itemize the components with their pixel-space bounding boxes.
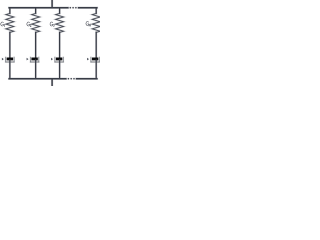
- main schematic strokes: [2, 0, 100, 86]
- wire branch 1 bottom: [9, 60, 11, 79]
- wire branch 2 bottom: [35, 60, 37, 79]
- memristor box M1 side edges: [6, 57, 14, 62]
- wire top bus right section: [79, 7, 97, 9]
- arrow mark at M3: [51, 58, 53, 61]
- memristor M3 bottom plate line: [55, 61, 63, 63]
- node ellipsis on top bus: [70, 7, 77, 8]
- memristor M1 bottom plate line: [6, 61, 14, 63]
- resistor G3: [56, 13, 64, 32]
- wire top bus left section: [9, 7, 68, 9]
- arrow mark at M4: [87, 58, 89, 61]
- wire bottom bus right section: [77, 78, 97, 80]
- resistor G2: [32, 13, 40, 32]
- terminal stub bottom (node b): [51, 79, 53, 86]
- wire branch 2 top lead: [35, 8, 37, 14]
- wire branch 2 middle: [35, 32, 37, 57]
- memristor box M4 side edges: [91, 57, 99, 62]
- memristor box M2 side edges: [30, 57, 38, 62]
- soft halo underlay (imitates downsampled antialiasing): [2, 0, 100, 86]
- wire bottom bus left section: [9, 78, 66, 80]
- memristor M2 black bar: [31, 58, 37, 61]
- memristor box M3 side edges: [55, 57, 63, 62]
- wire branch 4 middle: [95, 32, 97, 57]
- wire branch 1 top lead: [9, 8, 11, 14]
- label G2: [27, 22, 31, 27]
- resistor GN: [92, 13, 100, 32]
- wire branch 1 middle: [9, 32, 11, 57]
- terminal stub top (node a): [51, 0, 53, 8]
- wire branch 4 bottom: [95, 60, 97, 79]
- memristor M1 black bar: [7, 58, 13, 61]
- label G3: [50, 22, 54, 27]
- memristor M2 bottom plate line: [30, 61, 38, 63]
- node ellipsis on bottom bus: [68, 78, 75, 79]
- arrow mark at M2: [27, 58, 29, 61]
- memristor M3 black bar: [56, 58, 62, 61]
- label GN: [86, 22, 90, 27]
- resistor G1: [6, 13, 14, 32]
- arrow mark at M1: [2, 58, 4, 61]
- wire branch 4 top lead: [95, 8, 97, 14]
- wire branch 3 top lead: [59, 8, 61, 14]
- memristor M4 black bar: [92, 58, 98, 61]
- label G1: [1, 22, 5, 27]
- wire branch 3 middle: [59, 32, 61, 57]
- memristor M4 bottom plate line: [91, 61, 99, 63]
- wire branch 3 bottom: [59, 60, 61, 79]
